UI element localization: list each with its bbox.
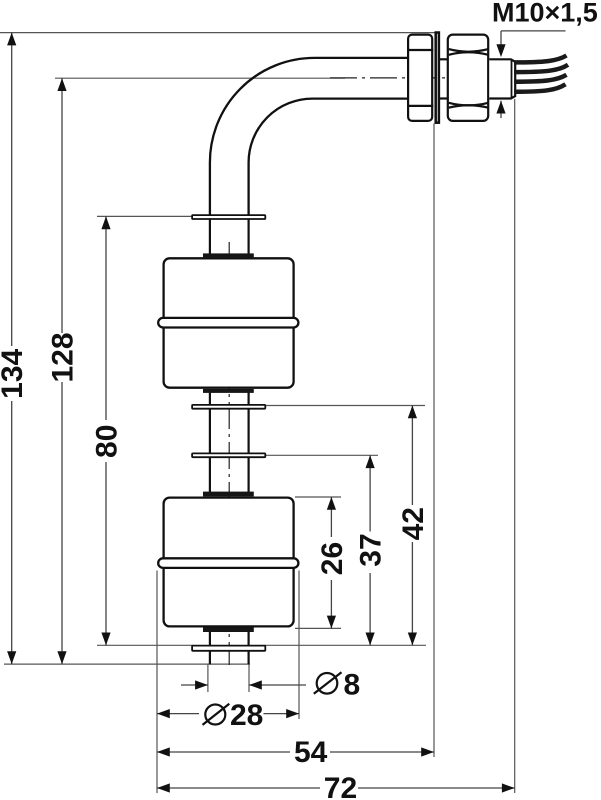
top retaining clip: [192, 215, 265, 219]
dimension line 26 (lower segment): [330, 580, 332, 628]
extension line, washer vertical (for dim 54): [433, 124, 435, 758]
dimension line 54 (left segment): [157, 751, 290, 753]
dimension line d8 (right tail to label): [249, 684, 306, 686]
arrowhead dim 42 bottom: [408, 633, 417, 646]
extension line, clip A (for dim 42): [265, 405, 425, 407]
diameter symbol for d28: [205, 705, 225, 725]
retaining clip A: [192, 405, 265, 409]
centerline, vertical stem axis: [228, 242, 230, 665]
arrowhead 54 left: [157, 747, 170, 756]
float 1 body: [164, 258, 294, 387]
stem bottom stub: [209, 651, 211, 665]
extension line, top clip (for dim 80): [97, 215, 192, 217]
arrowhead dim 42 top: [408, 406, 417, 419]
dimension line 134 (lower segment): [11, 401, 13, 664]
centerline, horizontal fitting axis: [330, 77, 513, 79]
arrowhead dim 80 top: [101, 216, 110, 229]
float 1 bottom hub: [203, 389, 254, 393]
arrowhead dim 128 top: [57, 78, 66, 91]
arrowhead dim 128 bottom: [57, 651, 66, 664]
threaded stub M10: [489, 59, 515, 98]
stem segment below float 1: [209, 392, 211, 406]
arrowhead M10 lower: [496, 101, 505, 114]
arrowhead dim 26 bottom: [327, 616, 336, 629]
arrowhead dim 26 top: [327, 497, 336, 510]
extension line, bottom stub right (for dim d8): [248, 665, 250, 693]
stem segment between clip B and float 2: [209, 458, 211, 493]
leader line M10x1,5 vertical lower tail: [500, 101, 502, 118]
hex nut 1 lower chamfer line: [407, 105, 433, 107]
extension line, top of fitting (for dim 134): [0, 32, 440, 34]
float 2 top hub: [203, 492, 254, 497]
arrowhead dim 80 bottom: [101, 633, 110, 646]
dimension line d28 (right segment): [264, 713, 300, 715]
svg-text:54: 54: [294, 736, 328, 769]
arrowhead d28 left: [157, 709, 170, 718]
float 1 seam ring: [158, 318, 298, 328]
dimension line 72 (right segment): [358, 787, 515, 789]
svg-text:26: 26: [316, 542, 349, 575]
float 2 bottom hub: [203, 627, 254, 632]
dimension line 54 (right segment): [330, 751, 434, 753]
extension line, float 2 top (for dim 26): [295, 496, 341, 498]
dimension line 128 (lower segment): [61, 382, 63, 664]
hex nut 1 upper chamfer line: [407, 49, 433, 51]
svg-text:8: 8: [344, 668, 361, 701]
pipe elbow outer edge: [210, 58, 408, 216]
arrowhead dim 134 top: [7, 33, 16, 46]
svg-text:80: 80: [90, 425, 123, 458]
arrowhead 54 right: [421, 747, 434, 756]
stem segment between top clip and float 1: [209, 220, 211, 255]
extension line, stem bottom end (for dims 134, 128): [4, 663, 250, 665]
arrowhead dim 37 top: [366, 455, 375, 468]
svg-text:28: 28: [230, 699, 263, 732]
diameter symbol for d8: [317, 673, 338, 694]
dimension line 80 (upper segment): [105, 216, 107, 420]
arrowhead d8 right: [249, 680, 262, 689]
svg-text:42: 42: [397, 507, 430, 540]
float 2 seam ring: [158, 558, 298, 568]
arrowhead d8 left: [195, 680, 208, 689]
extension line, ring right vertical (for dim d28): [298, 571, 300, 720]
washer: [436, 33, 439, 123]
svg-text:128: 128: [46, 332, 79, 382]
dimension line 37 (lower segment): [369, 573, 371, 645]
wire 4: [514, 84, 566, 92]
pipe elbow inner edge: [249, 99, 408, 216]
arrowhead d28 right: [286, 709, 299, 718]
hex nut 2 body: [448, 35, 488, 121]
arrowhead dim 37 bottom: [366, 633, 375, 646]
svg-text:72: 72: [324, 772, 357, 800]
extension line, bottom stub left (for dim d8): [207, 665, 209, 693]
threaded rod between washer and nut 2: [440, 58, 448, 60]
retaining clip B: [192, 453, 265, 457]
extension line, clip B (for dim 37): [265, 454, 378, 456]
threaded stub chamfer line: [511, 59, 513, 98]
svg-text:134: 134: [0, 348, 29, 398]
dimension line 42 (upper segment): [411, 406, 413, 506]
extension line, stub end vertical (for dim 72): [514, 99, 516, 793]
dimension line 37 (upper segment): [369, 455, 371, 531]
hex nut 2 upper chamfer arcs: [449, 49, 489, 52]
svg-text:37: 37: [355, 533, 388, 566]
extension line, float 2 bottom (for dim 26): [295, 627, 341, 629]
leader line M10x1,5 horizontal: [501, 30, 566, 32]
dimension line 128 (upper segment): [61, 78, 63, 333]
float 2 body: [164, 498, 294, 627]
wire 1: [514, 56, 567, 63]
arrowhead 72 right: [502, 783, 515, 792]
svg-text:M10×1,5: M10×1,5: [492, 0, 598, 28]
arrowhead 72 left: [157, 783, 170, 792]
arrowhead M10 upper: [496, 44, 505, 57]
leader line M10x1,5 vertical upper: [500, 31, 502, 45]
hex nut 2 lower chamfer arcs: [449, 103, 489, 106]
extension line, bottom clip right (for dims 37, 42): [265, 644, 427, 646]
bottom retaining clip: [192, 646, 265, 651]
extension line, pipe axis (for dim 128): [55, 77, 345, 79]
wire 3: [514, 75, 567, 82]
float 1 top hub: [203, 253, 254, 257]
extension line, ring left vertical (for dims d28, 54, 72): [156, 571, 158, 794]
dimension line 134 (upper segment): [11, 33, 13, 346]
dimension line 42 (lower segment): [411, 542, 413, 645]
dimension line 26 (upper segment): [330, 497, 332, 537]
stem segment below float 2: [209, 632, 211, 647]
hex nut 1 body: [408, 35, 432, 121]
dimension line 80 (lower segment): [105, 462, 107, 645]
dimension line d8 (left tail): [181, 684, 208, 686]
arrowhead dim 134 bottom: [7, 651, 16, 664]
wire 2: [514, 65, 568, 72]
stem segment between clip A and clip B: [209, 409, 211, 454]
dimension line d28 (left segment): [157, 713, 199, 715]
dimension line 72 (left segment): [157, 787, 320, 789]
extension line, bottom clip left (for dim 80): [97, 644, 193, 646]
